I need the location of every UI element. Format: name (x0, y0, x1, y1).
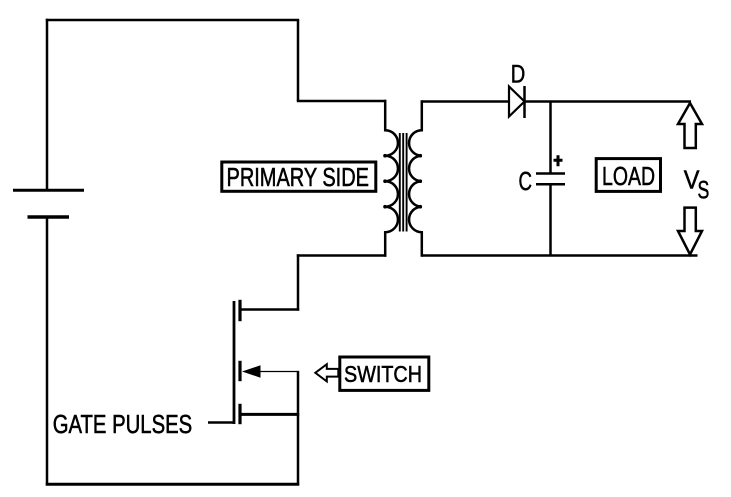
transformer primary winding L1 (385, 100, 398, 257)
svg-text:LOAD: LOAD (602, 161, 655, 191)
wire secondary top (422, 100, 509, 103)
capacitor C1 bottom plate (536, 183, 565, 186)
Vs up arrow (678, 103, 702, 148)
wire drain trunk vertical (297, 254, 300, 310)
wire secondary top right (525, 100, 692, 103)
svg-text:SWITCH: SWITCH (344, 361, 422, 387)
transformer secondary winding L2 (409, 100, 422, 256)
SWITCH box (340, 357, 429, 390)
wire bottom rail (primary side) (46, 483, 299, 486)
transistor Q1 body arrow (242, 365, 261, 377)
svg-text:C: C (519, 166, 533, 196)
transistor Q1 body contact bar (238, 361, 241, 381)
wire left vertical (battery top lead) (46, 19, 49, 190)
secondary winding cusp knobs (419, 154, 423, 209)
label GATE PULSES (53, 409, 193, 439)
svg-text:PRIMARY SIDE: PRIMARY SIDE (227, 162, 370, 192)
diode D1 triangle (509, 87, 525, 117)
wire capacitor top lead (549, 102, 552, 174)
svg-text:GATE PULSES: GATE PULSES (53, 409, 193, 439)
LOAD box (596, 159, 660, 192)
primary winding cusp knobs (383, 154, 387, 209)
transistor Q1 drain contact bar (238, 300, 241, 321)
label SWITCH (344, 361, 422, 387)
transistor Q1 source contact bar (238, 404, 241, 424)
label Vs (684, 165, 710, 205)
capacitor C1 top plate (536, 172, 565, 175)
wire primary top jog vertical (297, 20, 300, 101)
wire top rail (46, 19, 299, 22)
wire capacitor bottom lead (549, 184, 552, 255)
svg-text:D: D (511, 61, 526, 89)
wire bottom rail (secondary side) (422, 254, 698, 257)
wire source trunk vertical (297, 371, 300, 486)
battery short plate (-) (28, 215, 70, 219)
wire primary top jog horizontal (297, 100, 386, 103)
transformer core (400, 133, 407, 232)
wire primary bottom jog horizontal (297, 254, 387, 257)
label C (519, 166, 533, 196)
capacitor plus sign (554, 155, 563, 166)
wire gate lead (208, 421, 234, 424)
wire drain horizontal (241, 308, 300, 311)
diode D1 cathode bar (523, 86, 526, 118)
battery long plate (+) (13, 189, 84, 192)
switch pointer open arrow (315, 364, 338, 381)
label LOAD (602, 161, 655, 191)
label PRIMARY SIDE (227, 162, 370, 192)
svg-text:S: S (698, 176, 710, 204)
wire left vertical (battery bottom lead) (46, 217, 49, 486)
Vs down arrow (678, 208, 702, 255)
label D (511, 61, 526, 89)
wire body thin line (258, 371, 299, 373)
PRIMARY SIDE box (222, 162, 376, 191)
wire source horizontal (241, 413, 300, 416)
transistor Q1 gate line (233, 301, 236, 424)
